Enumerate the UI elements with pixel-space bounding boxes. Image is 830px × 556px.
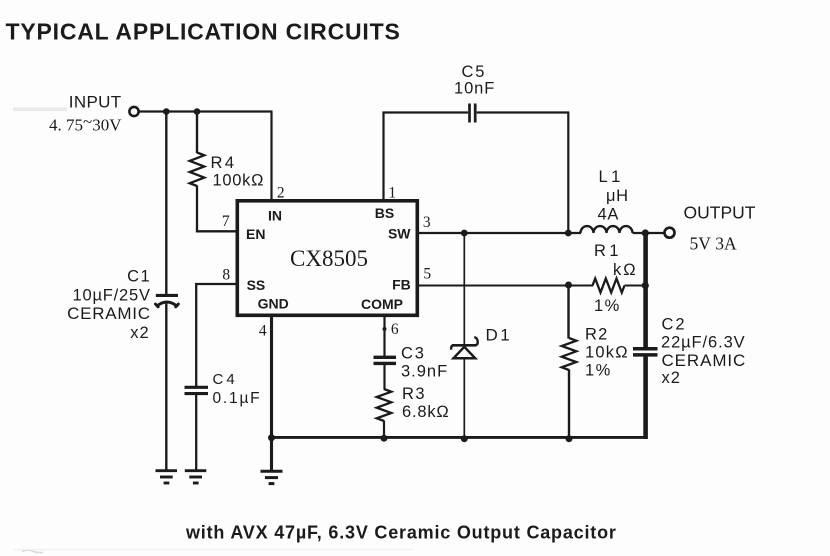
svg-text:10kΩ: 10kΩ — [585, 344, 629, 362]
svg-text:5: 5 — [423, 266, 431, 283]
wire FB pin5 — [418, 285, 593, 287]
svg-text:CX8505: CX8505 — [290, 246, 368, 271]
wire bottom rail — [272, 436, 646, 439]
svg-text:μH: μH — [606, 187, 629, 205]
svg-text:R2: R2 — [585, 326, 609, 344]
wire pin2 IN vertical — [270, 112, 272, 202]
svg-text:1%: 1% — [594, 297, 621, 315]
svg-text:R3: R3 — [402, 385, 426, 403]
junction input/R4 — [194, 108, 201, 115]
svg-text:CERAMIC: CERAMIC — [662, 351, 747, 370]
resistor R1 — [593, 279, 625, 293]
svg-text:4: 4 — [259, 323, 267, 340]
ground (C4) — [185, 471, 207, 483]
wire COMP pin6 vertical — [383, 316, 385, 357]
diode D1 (zener) — [451, 337, 478, 358]
svg-text:R4: R4 — [211, 154, 237, 172]
wire C3 to R3 — [383, 365, 385, 390]
ground (GND pin) — [261, 471, 283, 483]
svg-text:x2: x2 — [662, 369, 681, 387]
svg-text:10µF/25V: 10µF/25V — [73, 287, 151, 305]
svg-text:SS: SS — [247, 277, 266, 293]
svg-text:IN: IN — [268, 208, 282, 224]
wire C4 lower lead — [195, 395, 197, 471]
svg-text:7: 7 — [222, 213, 230, 230]
junction FB/R2 — [565, 282, 572, 289]
svg-text:8: 8 — [222, 267, 230, 284]
svg-text:with AVX 47µF, 6.3V Ceramic Ou: with AVX 47µF, 6.3V Ceramic Output Capac… — [185, 523, 617, 543]
input terminal — [129, 107, 138, 116]
svg-text:TYPICAL APPLICATION CIRCUITS: TYPICAL APPLICATION CIRCUITS — [6, 18, 401, 44]
svg-text:COMP: COMP — [361, 296, 403, 312]
svg-text:kΩ: kΩ — [613, 261, 638, 279]
svg-text:OUTPUT: OUTPUT — [684, 203, 756, 223]
wire C2 lower lead (thick) — [643, 356, 648, 439]
wire R4 to EN pin7 — [197, 186, 237, 232]
svg-text:L1: L1 — [599, 168, 624, 186]
svg-text:100kΩ: 100kΩ — [213, 171, 265, 189]
svg-text:BS: BS — [375, 205, 394, 221]
wire output vertical (thick) — [643, 233, 648, 348]
svg-text:22µF/6.3V: 22µF/6.3V — [661, 333, 746, 351]
wire R4 top lead — [196, 112, 198, 154]
svg-text:x2: x2 — [130, 324, 149, 342]
wire R3 bottom lead — [383, 421, 385, 439]
svg-text:6: 6 — [391, 321, 399, 338]
svg-text:3: 3 — [423, 214, 431, 231]
junction SW/D1 — [461, 230, 468, 237]
ground (C1) — [156, 471, 178, 483]
wire C1 vertical upper — [165, 112, 167, 295]
junction SW/C5 — [565, 230, 572, 237]
capacitor C1 — [155, 295, 178, 307]
svg-text:CERAMIC: CERAMIC — [67, 304, 151, 323]
svg-text:D1: D1 — [486, 325, 513, 344]
wire D1 vertical — [463, 233, 465, 438]
capacitor C5 — [470, 104, 476, 123]
junction R1/output line — [642, 282, 649, 289]
wire GND pin4 vertical — [270, 316, 273, 470]
svg-text:6.8kΩ: 6.8kΩ — [402, 403, 450, 421]
capacitor C4 — [185, 387, 209, 393]
svg-text:0.1µF: 0.1µF — [213, 390, 262, 407]
svg-text:10nF: 10nF — [454, 79, 495, 97]
wire R2 bottom lead — [568, 370, 570, 439]
svg-text:1: 1 — [388, 184, 396, 201]
svg-text:SW: SW — [388, 225, 411, 241]
svg-text:C1: C1 — [127, 268, 151, 286]
junction rail/pin4 — [268, 434, 275, 441]
svg-text:1%: 1% — [585, 362, 612, 380]
svg-text:EN: EN — [246, 226, 265, 242]
svg-text:R1: R1 — [594, 242, 622, 260]
wire SW pin3 — [418, 232, 581, 234]
wire L1 to output — [633, 232, 665, 234]
wire C5 top right — [477, 113, 569, 234]
junction input/C1 — [163, 108, 170, 115]
capacitor C3 — [374, 357, 397, 363]
inductor L1 — [581, 226, 633, 233]
wire C1 vertical lower — [165, 302, 167, 470]
svg-text:5V 3A: 5V 3A — [690, 234, 738, 254]
svg-text:C4: C4 — [213, 371, 238, 388]
resistor R3 — [377, 389, 392, 421]
pin6 tick — [383, 327, 387, 331]
junction output node — [642, 229, 649, 236]
svg-text:2: 2 — [277, 184, 285, 201]
wire R2 top lead — [567, 286, 569, 339]
resistor R2 — [562, 338, 577, 370]
svg-text:C2: C2 — [662, 315, 687, 333]
svg-text:FB: FB — [392, 277, 411, 293]
wire SS pin8 to C4 — [196, 284, 236, 386]
svg-text:3.9nF: 3.9nF — [401, 362, 448, 380]
wire pin1 BS vertical — [382, 113, 384, 202]
junction rail/R3 — [381, 435, 388, 442]
svg-text:4A: 4A — [598, 205, 620, 223]
svg-text:C3: C3 — [401, 345, 426, 363]
output terminal — [665, 228, 675, 238]
svg-text:C5: C5 — [462, 63, 487, 81]
capacitor C2 — [633, 349, 658, 355]
wire C5 top left — [382, 111, 468, 113]
resistor R4 — [190, 153, 205, 187]
svg-text:INPUT: INPUT — [69, 93, 122, 112]
svg-text:GND: GND — [258, 295, 289, 311]
junction rail/D1 — [461, 435, 468, 442]
op-amp U1 CX8505 body — [237, 201, 417, 315]
junction rail/R2 — [566, 435, 573, 442]
wire input top rail — [139, 110, 273, 112]
wire R1 to output line — [625, 285, 646, 287]
